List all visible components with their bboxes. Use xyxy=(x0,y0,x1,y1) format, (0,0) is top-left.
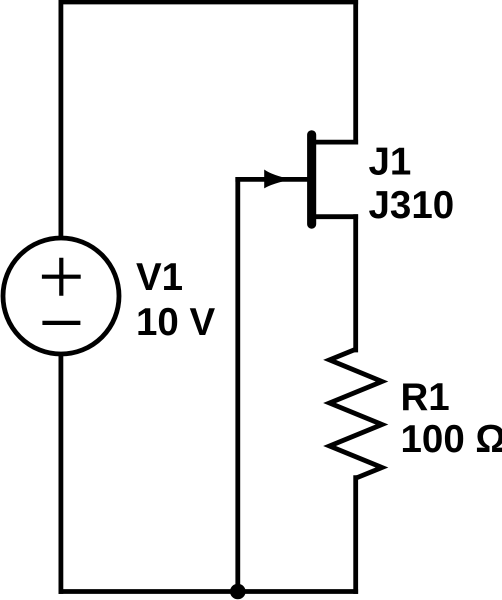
resistor R1 zigzag xyxy=(330,349,383,478)
wire: left vertical upper (V1 + terminal to top-left corner) xyxy=(59,2,64,237)
V1 minus sign xyxy=(42,321,80,325)
V1 plus sign xyxy=(42,258,81,296)
svg-text:J1: J1 xyxy=(369,140,412,183)
svg-text:100 Ω: 100 Ω xyxy=(401,418,502,461)
wire: middle vertical (gate down to bottom rail) xyxy=(235,179,240,591)
svg-text:V1: V1 xyxy=(136,256,183,299)
junction node (middle vertical meets bottom rail) xyxy=(230,584,246,600)
wire: right vertical lower (R1 bottom to bottom rail) xyxy=(353,478,358,592)
wire: right vertical (J1 source down to R1 top) xyxy=(353,217,358,350)
wire: top horizontal rail xyxy=(61,0,356,4)
transistor J1 gate arrowhead xyxy=(264,170,291,189)
wire: left vertical lower (V1 - terminal to bottom rail) xyxy=(59,355,64,592)
svg-text:J310: J310 xyxy=(369,184,455,227)
wire: bottom horizontal rail xyxy=(61,589,356,594)
svg-text:R1: R1 xyxy=(401,376,450,419)
wire: J1 drain horizontal xyxy=(312,140,356,145)
transistor J1 channel bar xyxy=(307,130,316,229)
wire: J1 source horizontal xyxy=(312,214,356,219)
voltage source V1 circle xyxy=(3,238,119,354)
wire: right vertical upper (top rail down to J1 drain) xyxy=(353,2,358,142)
svg-text:10 V: 10 V xyxy=(136,301,216,344)
wire: J1 gate horizontal xyxy=(238,177,309,182)
